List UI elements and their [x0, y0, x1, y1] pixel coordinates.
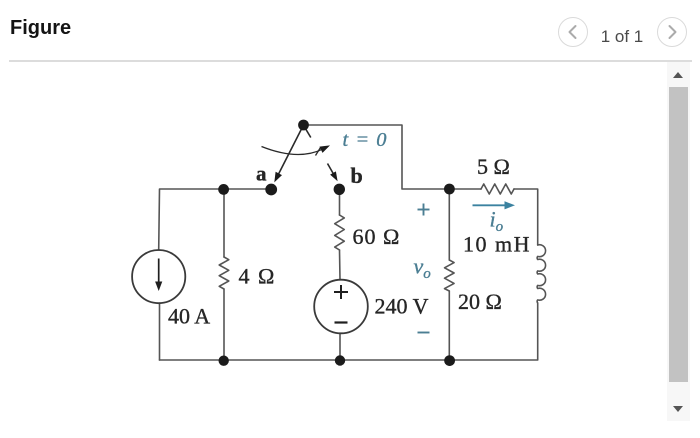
wire left vertical upper	[159, 189, 271, 250]
inductor L 10mH coil	[537, 245, 545, 303]
current source arrow	[155, 259, 162, 292]
wire source to bottom	[339, 333, 341, 360]
svg-text:10 mH: 10 mH	[463, 232, 531, 257]
svg-text:60 Ω: 60 Ω	[353, 224, 401, 249]
switch arc arrowhead	[320, 145, 331, 153]
switch arc t=0	[262, 147, 323, 156]
switch blade to a	[274, 125, 303, 182]
scrollbar	[667, 62, 690, 421]
svg-text:5 Ω: 5 Ω	[477, 154, 510, 179]
svg-text:240 V: 240 V	[375, 294, 429, 319]
resistor R 5ohm zigzag	[481, 184, 514, 194]
node bottom 3	[444, 355, 455, 366]
node b	[334, 184, 345, 195]
wire 60ohm to source	[339, 250, 342, 280]
pager next button	[657, 17, 687, 47]
pager previous button	[558, 17, 588, 47]
vo minus mark	[418, 332, 430, 334]
vo plus mark	[418, 204, 430, 216]
current arrow io	[473, 201, 516, 209]
wire 4ohm branch upper	[223, 189, 225, 257]
wire top from switch pole to right corner	[304, 125, 445, 189]
node bottom 2	[335, 355, 345, 365]
resistor R3 20ohm zigzag	[445, 260, 455, 291]
voltage source V1 circle	[314, 280, 368, 334]
wire inductor bottom to bottom-right corner	[450, 303, 538, 360]
node bottom 1	[219, 356, 229, 366]
node junction right	[444, 184, 455, 195]
svg-text:t = 0: t = 0	[343, 129, 388, 151]
switch b arrow	[328, 164, 338, 182]
voltage source minus	[335, 321, 348, 323]
wire from node to 5-ohm and corner down to inductor	[449, 188, 481, 190]
svg-text:40 A: 40 A	[168, 304, 210, 329]
node a	[265, 184, 277, 196]
voltage source plus	[334, 285, 348, 299]
svg-text:20 Ω: 20 Ω	[458, 289, 502, 314]
svg-text:4 Ω: 4 Ω	[239, 264, 276, 289]
wire 4ohm branch lower	[223, 289, 225, 360]
svg-text:vo: vo	[414, 254, 432, 283]
wire 20ohm branch lower	[448, 291, 450, 360]
resistor R2 60ohm zigzag	[335, 215, 345, 250]
current source I1 circle	[132, 250, 185, 303]
wire b branch upper	[339, 189, 341, 215]
svg-text:b: b	[351, 163, 363, 188]
wire left vertical lower	[159, 303, 161, 360]
switch pivot stub	[305, 127, 311, 138]
resistor R1 4ohm zigzag	[219, 257, 229, 289]
wire bottom rail	[160, 359, 450, 361]
svg-text:a: a	[256, 162, 267, 186]
wire 20ohm branch upper	[448, 189, 450, 260]
node pole	[298, 120, 309, 131]
node junction left	[218, 184, 229, 195]
wire 5ohm to top-right corner down	[514, 189, 538, 245]
